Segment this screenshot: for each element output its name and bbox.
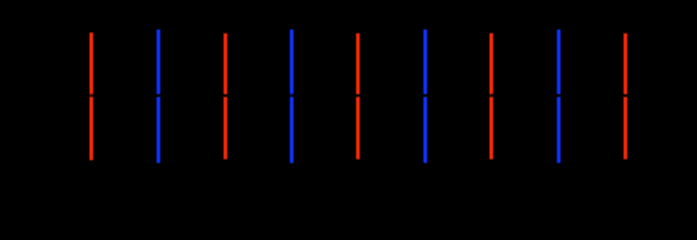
tick 4 (blue) gap diagonal residue	[290, 93, 293, 97]
tick 4 (blue) top segment	[290, 30, 294, 95]
tick 8 (blue) top segment	[557, 30, 561, 95]
tick 7 (red) top segment	[490, 33, 494, 94]
tick 3 (red) bottom segment	[224, 97, 228, 159]
tick 5 (red) top segment	[356, 33, 360, 94]
tick 1 (red) gap diagonal residue	[90, 92, 94, 96]
tick 1 (red) top segment	[90, 33, 94, 95]
tick 2 (blue) top segment	[157, 30, 161, 95]
tick 7 (red) bottom segment	[490, 97, 494, 159]
tick 6 (blue) bottom segment	[423, 97, 427, 163]
tick 7 (red) gap diagonal residue	[490, 93, 493, 97]
tick 5 (red) bottom segment	[356, 97, 360, 159]
tick 6 (blue) top segment	[423, 30, 427, 95]
tick 9 (red) top segment	[624, 33, 628, 94]
tick 4 (blue) bottom segment	[290, 97, 294, 163]
tick 1 (red) bottom segment	[90, 97, 94, 160]
tick 3 (red) top segment	[224, 33, 228, 94]
tick 9 (red) bottom segment	[624, 97, 628, 159]
tick 2 (blue) bottom segment	[157, 97, 161, 163]
tick 8 (blue) bottom segment	[557, 97, 561, 163]
